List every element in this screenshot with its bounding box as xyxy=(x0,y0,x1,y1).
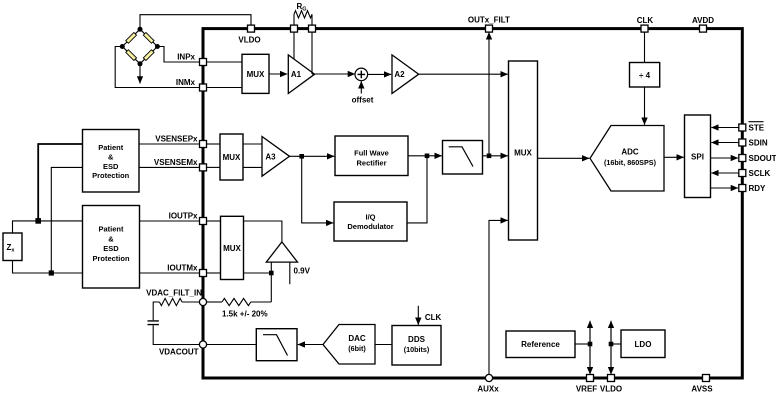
svg-text:LDO: LDO xyxy=(635,340,652,349)
junction at A3 output xyxy=(299,154,304,159)
wire MUX3 to buffer apex xyxy=(244,221,282,242)
block IQ Demodulator xyxy=(334,202,407,241)
wire VSENSEPx pin to MUX2 xyxy=(207,143,221,145)
svg-text:VDAC_FILT_IN: VDAC_FILT_IN xyxy=(146,288,202,297)
svg-text:VLDO: VLDO xyxy=(238,36,260,45)
wire A2 output to MUX4 arrow xyxy=(419,73,508,75)
wire ADC to SPI arrow xyxy=(664,156,684,158)
wire bridge left node to INMx pin xyxy=(115,47,200,88)
bridge node top xyxy=(138,27,143,32)
svg-text:AUXx: AUXx xyxy=(477,385,499,394)
wire AUXx up into MUX4 arrow xyxy=(489,220,508,374)
wire node stub up to buffer base xyxy=(270,262,272,273)
junction rectifier output xyxy=(425,154,430,159)
block Full Wave Rectifier xyxy=(335,136,408,176)
bridge resistor arm R bottom-right xyxy=(143,50,154,61)
svg-text:ESD: ESD xyxy=(103,162,119,171)
pin VDACOUT xyxy=(199,341,206,348)
resistor 1.5k zigzag xyxy=(222,298,251,305)
svg-text:VLDO: VLDO xyxy=(600,385,622,394)
wire VREF vertical double arrow xyxy=(589,321,591,373)
junction IOUTMx buffer node xyxy=(269,271,274,276)
wire SDOUT out of SPI arrow xyxy=(711,157,739,159)
svg-text:IOUTMx: IOUTMx xyxy=(167,264,198,273)
wire STE into SPI arrow xyxy=(711,127,739,129)
bridge arm wire top-left xyxy=(122,29,140,46)
junction on Zx top wire xyxy=(35,218,41,224)
svg-text:A1: A1 xyxy=(291,70,302,79)
svg-text:RDY: RDY xyxy=(749,184,767,193)
svg-text:ADC: ADC xyxy=(621,148,639,157)
svg-text:(10bits): (10bits) xyxy=(404,345,430,354)
resistor RG zigzag xyxy=(294,11,312,18)
svg-text:MUX: MUX xyxy=(223,153,241,162)
summer plus sign xyxy=(358,71,366,79)
wire box2 to IOUTPx pin xyxy=(140,220,201,222)
bridge resistor arm R top-right xyxy=(143,32,154,43)
buffer amplifier 0.9V xyxy=(266,242,297,262)
svg-text:(6bit): (6bit) xyxy=(348,344,366,353)
svg-text:SCLK: SCLK xyxy=(749,169,771,178)
pin VREF xyxy=(587,375,594,382)
svg-text:offset: offset xyxy=(352,96,374,105)
wire SDIN into SPI arrow xyxy=(711,142,739,144)
bridge resistor arm R bottom-left xyxy=(126,50,137,61)
wire divider to ADC arrow xyxy=(644,87,646,125)
svg-text:CLK: CLK xyxy=(425,313,442,322)
svg-text:(16bit, 860SPS): (16bit, 860SPS) xyxy=(604,158,657,167)
svg-text:STE: STE xyxy=(749,123,765,132)
svg-text:SDIN: SDIN xyxy=(749,138,768,147)
svg-text:MUX: MUX xyxy=(223,244,241,253)
wire bridge top node to VLDO pin xyxy=(140,15,251,30)
wire external resistor left of VDAC_FILT_IN xyxy=(182,301,199,303)
bridge arm wire top-right xyxy=(140,29,157,46)
bridge node left xyxy=(120,44,125,49)
svg-text:A3: A3 xyxy=(265,152,276,161)
resistor external RC zigzag xyxy=(159,298,182,305)
svg-text:INPx: INPx xyxy=(177,53,195,62)
divider block div4 xyxy=(630,63,660,88)
wire node to Patient box 1 lower input xyxy=(51,167,82,273)
filter block lowpass 2 xyxy=(256,329,297,361)
wire IOUTPx pin to MUX3 xyxy=(207,220,221,222)
svg-text:MUX: MUX xyxy=(514,148,532,157)
junction on Zx bottom wire xyxy=(49,270,54,275)
wire capacitor to VDACOUT pin xyxy=(153,325,199,344)
wire CLK pin to divider xyxy=(644,32,646,62)
wire node to Patient box 1 upper input xyxy=(38,144,82,221)
svg-text:Patient: Patient xyxy=(98,225,124,234)
pin RG right xyxy=(309,25,316,32)
wire IOUTMx pin to MUX3 xyxy=(207,272,221,274)
bridge node bottom xyxy=(138,61,143,66)
block Reference xyxy=(506,331,575,358)
wire VLDO to LDO xyxy=(611,343,621,345)
clk arrow into DDS xyxy=(417,306,419,325)
wire MUX2 to A3 upper xyxy=(243,143,262,145)
wire VSENSEMx pin to MUX2 xyxy=(207,166,221,168)
svg-text:&: & xyxy=(108,152,114,161)
wire A1 output to summer arrow xyxy=(312,73,355,75)
pin VSENSEMx xyxy=(200,164,207,171)
patient ESD protection box 2 xyxy=(83,206,140,289)
bridge arm wire bottom-left xyxy=(122,47,140,64)
pin STE xyxy=(739,124,746,131)
svg-text:CLK: CLK xyxy=(637,16,654,25)
wire Reference to VREF line xyxy=(575,343,590,345)
svg-text:÷ 4: ÷ 4 xyxy=(639,71,651,80)
pin IOUTPx xyxy=(200,218,207,225)
wire MUX2 to A3 lower xyxy=(243,166,262,168)
pin IOUTMx xyxy=(200,270,207,277)
op-amp A2 xyxy=(392,55,419,94)
svg-text:DDS: DDS xyxy=(408,335,426,344)
wire SCLK into SPI arrow xyxy=(711,172,739,174)
wire RG right pin down to A1 output xyxy=(311,32,313,74)
block DDS xyxy=(392,326,441,366)
wire INPx pin to MUX A1 xyxy=(207,61,243,63)
svg-text:VREF: VREF xyxy=(576,385,597,394)
block SPI xyxy=(685,115,711,198)
svg-text:IOUTPx: IOUTPx xyxy=(169,212,198,221)
impedance Zx box xyxy=(3,233,22,261)
wire IQ demodulator output up to node xyxy=(407,156,427,223)
summing junction circle xyxy=(355,68,368,81)
bridge resistor arm R top-left xyxy=(126,32,137,43)
svg-text:Reference: Reference xyxy=(521,340,560,349)
wire DDS to DAC xyxy=(375,344,392,346)
adc ADC pentagon xyxy=(590,126,664,192)
svg-text:VSENSEPx: VSENSEPx xyxy=(155,135,198,144)
pin RDY xyxy=(739,185,746,192)
wire box1 to VSENSEPx pin xyxy=(139,143,200,145)
wire MUX1 to A1 arrow xyxy=(269,73,287,75)
svg-text:Demodulator: Demodulator xyxy=(347,222,393,231)
svg-text:SDOUT: SDOUT xyxy=(749,154,776,163)
wire RDY out of SPI arrow xyxy=(711,187,739,189)
wire A3 output to rectifier arrow xyxy=(290,155,335,157)
pin VLDO bottom xyxy=(608,375,615,382)
pin VDAC_FILT_IN xyxy=(199,298,206,305)
svg-text:AVSS: AVSS xyxy=(691,385,713,394)
wire RG left pin down to A1 input xyxy=(293,32,295,59)
bridge ground arrow xyxy=(139,64,141,84)
svg-text:Protection: Protection xyxy=(92,171,130,180)
dac DAC 6bit pentagon xyxy=(323,325,375,365)
junction VLDO xyxy=(609,342,614,347)
wire summer to A2 arrow xyxy=(368,73,392,75)
wire VLDO vertical double arrow xyxy=(610,321,612,373)
svg-text:ESD: ESD xyxy=(103,244,119,253)
pin VLDO top xyxy=(248,25,255,32)
pin AUXx xyxy=(485,374,492,381)
svg-text:Patient: Patient xyxy=(98,143,124,152)
pin INPx xyxy=(200,59,207,66)
patient ESD protection box 1 xyxy=(83,130,140,193)
svg-text:DAC: DAC xyxy=(348,334,366,343)
wire buffer node down to 1.5k resistor xyxy=(270,273,272,302)
pin AVSS xyxy=(703,375,710,382)
wire box2 to IOUTMx pin xyxy=(140,272,201,274)
wire rectifier output to filter arrow xyxy=(408,155,442,157)
capacitor external plates xyxy=(148,321,159,325)
pin SDOUT xyxy=(739,155,746,162)
wire A3 output down to IQ demodulator arrow xyxy=(302,156,334,223)
filter block lowpass 1 xyxy=(443,141,483,175)
wire VDACOUT pin to lowpass filter 2 xyxy=(207,344,257,346)
bridge arm wire bottom-right xyxy=(140,47,157,64)
wire RG right stub above edge xyxy=(311,14,313,25)
wire Zx top to Patient box 2 upper input xyxy=(13,221,83,233)
wire IOUTMx to buffer node xyxy=(244,272,272,274)
svg-text:VSENSEMx: VSENSEMx xyxy=(154,158,198,167)
svg-text:OUTx_FILT: OUTx_FILT xyxy=(468,16,510,25)
svg-text:MUX: MUX xyxy=(247,70,265,79)
pin SCLK xyxy=(739,170,746,177)
pin SDIN xyxy=(739,139,746,146)
svg-text:1.5k +/- 20%: 1.5k +/- 20% xyxy=(222,309,268,318)
bridge node right xyxy=(155,44,160,49)
mux MUX4 adc input mux xyxy=(509,61,538,240)
pin AVDD xyxy=(700,25,707,32)
offset arrow into summer xyxy=(360,81,362,93)
wire Zx bottom to Patient box 2 lower input xyxy=(13,261,83,274)
mux MUX3 iout mux xyxy=(221,216,244,279)
pin CLK top xyxy=(641,25,648,32)
wire INMx pin to MUX A1 xyxy=(207,87,243,89)
wire DAC to lowpass filter 2 arrow xyxy=(298,344,323,346)
svg-text:Full Wave: Full Wave xyxy=(354,148,389,157)
svg-text:RG: RG xyxy=(296,2,306,13)
pin OUTx_FILT xyxy=(486,25,493,32)
svg-text:Rectifier: Rectifier xyxy=(356,158,386,167)
wire box1 to VSENSEMx pin xyxy=(139,166,200,168)
svg-text:Protection: Protection xyxy=(92,254,130,263)
svg-text:INMx: INMx xyxy=(176,78,196,87)
svg-text:I/Q: I/Q xyxy=(365,212,375,221)
wire filter to MUX4 arrow xyxy=(483,155,508,157)
wire OUTx_FILT vertical with up arrow xyxy=(488,32,490,156)
mux MUX2 vsense mux xyxy=(220,134,243,180)
pin VSENSEPx xyxy=(200,141,207,148)
wire VDAC_FILT_IN pin to resistor xyxy=(207,301,222,303)
mux MUX1 input mux xyxy=(242,54,269,93)
svg-text:AVDD: AVDD xyxy=(692,16,714,25)
op-amp A3 xyxy=(262,137,290,177)
junction VREF xyxy=(588,342,593,347)
svg-text:&: & xyxy=(108,235,114,244)
wire bridge right node to INPx pin xyxy=(157,47,200,63)
wire resistor to buffer node vertical xyxy=(251,301,271,303)
block LDO xyxy=(621,330,665,358)
wire RG left stub above edge xyxy=(293,14,295,25)
lowpass 1 response curve xyxy=(449,147,473,167)
pin RG left xyxy=(291,25,298,32)
pin INMx xyxy=(200,84,207,91)
svg-text:0.9V: 0.9V xyxy=(294,267,311,276)
svg-text:SPI: SPI xyxy=(691,152,704,161)
svg-text:A2: A2 xyxy=(394,70,405,79)
junction filter output OUTx_FILT xyxy=(487,154,492,159)
chip boundary xyxy=(203,29,742,378)
lowpass 2 response curve xyxy=(263,335,288,356)
svg-text:VDACOUT: VDACOUT xyxy=(159,348,199,357)
wire resistor to capacitor xyxy=(153,302,159,320)
wire 0.9V stub xyxy=(289,262,291,284)
wire MUX4 to ADC arrow xyxy=(538,157,590,159)
op-amp A1 xyxy=(288,55,314,94)
